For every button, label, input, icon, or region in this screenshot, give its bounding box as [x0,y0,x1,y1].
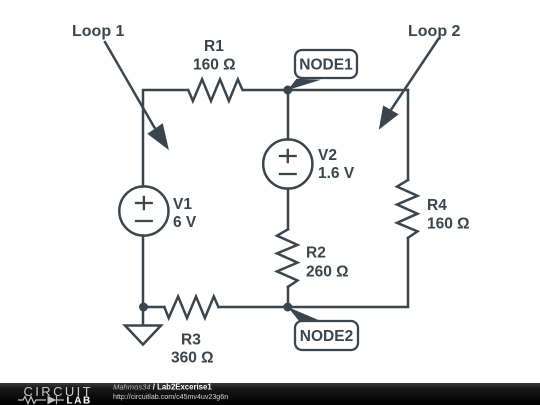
footer logo resistor-diode symbol [18,396,64,404]
wire middle vertical mid (V2 to R2) [287,189,290,230]
resistor R3 body [164,297,218,319]
wire bottom middle (NODE2 to R3) [218,306,288,309]
node junction dot NODE2 [283,303,292,312]
wire right vertical bottom (R4 to bottom wire) [288,238,408,307]
resistor R4 body [397,180,418,238]
wire left vertical top (corner to V1) [143,90,188,187]
svg-text:NODE2: NODE2 [300,328,353,345]
resistor R2 body [277,229,298,287]
resistor R1 body [188,79,242,101]
V2 plus sign [279,149,297,163]
svg-text:Loop 1: Loop 1 [72,23,125,40]
voltage source V2 circle [263,139,312,188]
annotation Loop 2 arrow [391,38,439,110]
wire middle vertical bottom (R2 to NODE2) [287,287,290,307]
annotation Loop 1 arrow [104,41,155,129]
svg-text:1.6 V: 1.6 V [318,165,355,182]
wire left vertical bottom (V1 to bottom node) [142,236,145,308]
svg-text:160 Ω: 160 Ω [427,216,470,233]
footer bar [0,383,540,405]
svg-text:R4: R4 [427,197,447,214]
svg-text:R1: R1 [204,38,224,55]
svg-text:NODE1: NODE1 [299,57,353,74]
node junction dot at ground [139,303,148,312]
svg-text:Mahmos34 / Lab2Excerise1: Mahmos34 / Lab2Excerise1 [113,383,212,392]
ground symbol [125,307,161,345]
node NODE1 callout pointer [288,79,321,90]
wire bottom left (R3 to ground node) [143,306,164,309]
wire top horizontal (R1 to NODE1 to right corner) [243,89,408,92]
svg-text:V1: V1 [173,196,192,213]
svg-text:Loop 2: Loop 2 [408,23,461,40]
svg-text:http://circuitlab.com/c45mv4uv: http://circuitlab.com/c45mv4uv23g6n [113,393,228,401]
svg-text:V2: V2 [318,147,337,164]
svg-text:R2: R2 [306,245,326,262]
wire middle vertical top (NODE1 to V2) [287,90,290,140]
wire right vertical top (corner to R4) [407,90,410,180]
node junction dot NODE1 [283,86,292,95]
svg-text:LAB: LAB [67,396,92,405]
svg-text:160 Ω: 160 Ω [193,57,236,74]
node NODE2 label box [295,321,358,350]
svg-text:360 Ω: 360 Ω [171,350,214,367]
svg-text:R3: R3 [181,332,201,349]
V1 plus sign [135,196,153,210]
node NODE2 callout pointer [288,307,322,322]
node NODE1 label box [295,50,357,78]
V2 minus sign [279,173,297,175]
V1 minus sign [135,220,153,222]
voltage source V1 circle [119,186,168,235]
svg-text:260 Ω: 260 Ω [306,264,349,281]
svg-text:6 V: 6 V [173,214,197,231]
